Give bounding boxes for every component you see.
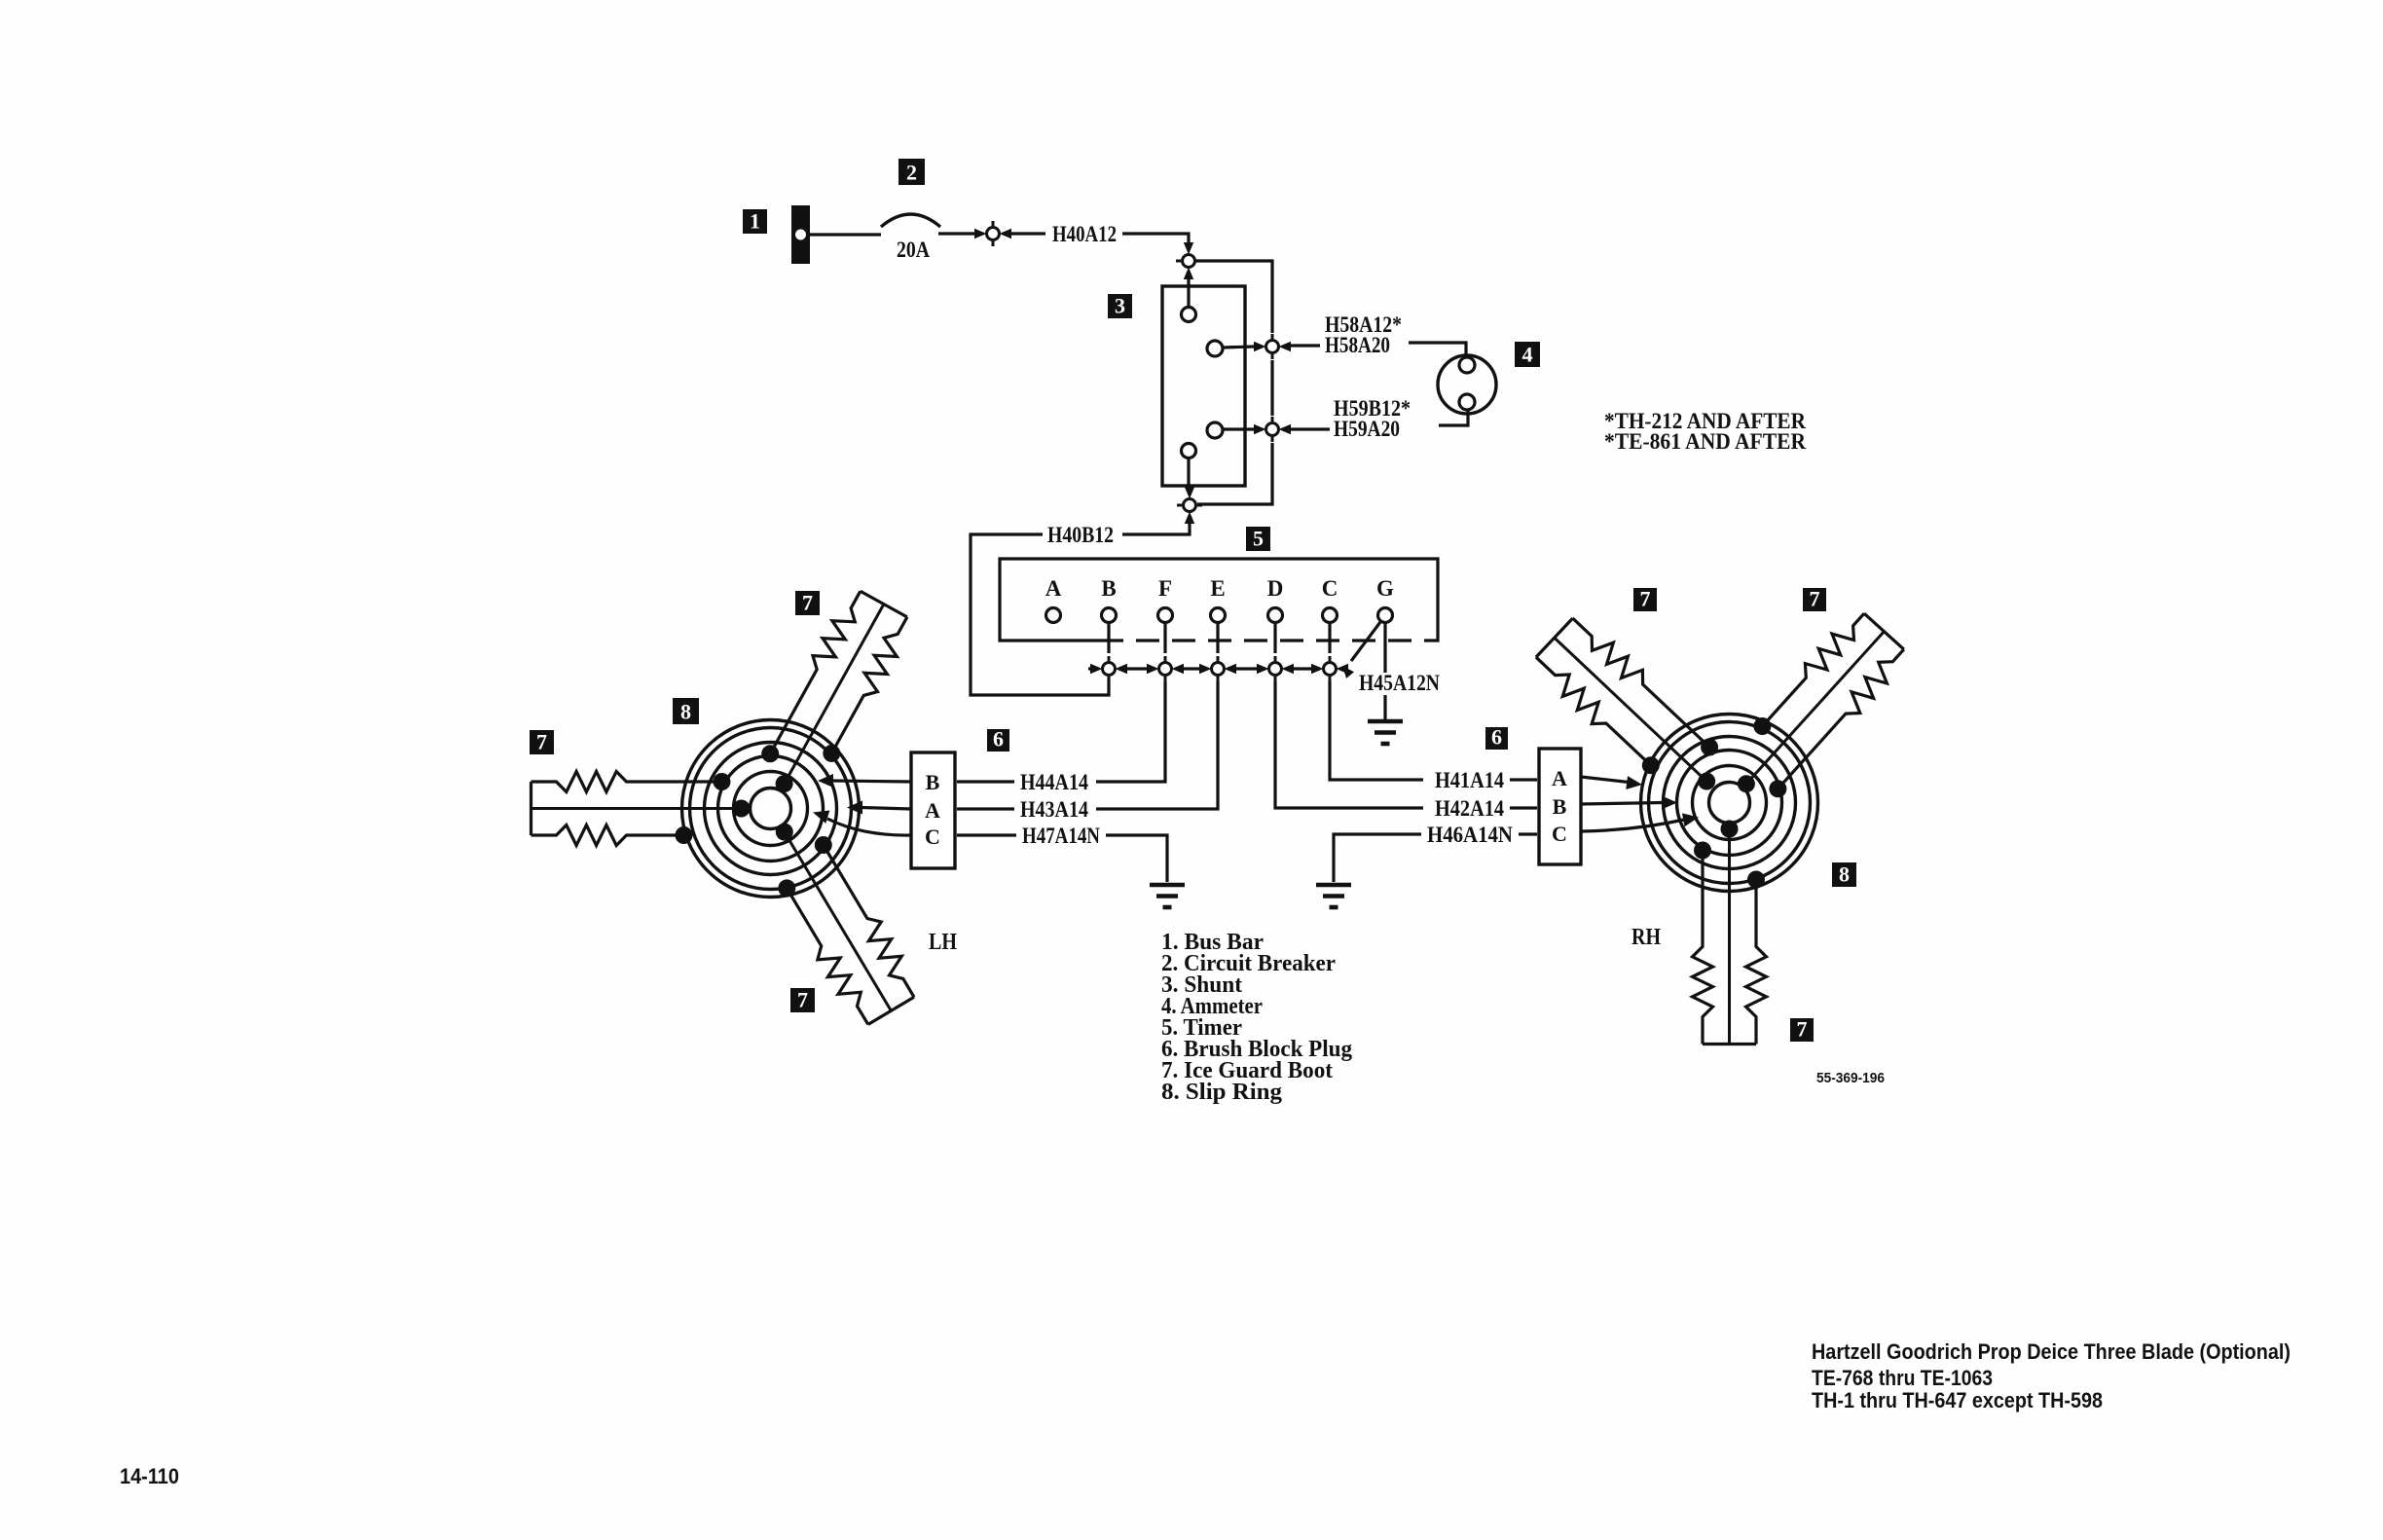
- bus segment F-E: [1184, 667, 1199, 670]
- item label 6 (left): [987, 727, 1009, 752]
- ice guard boot RH upper-right blade (item 7): [1738, 613, 1904, 797]
- wire H41A14 to right brush block A: [1510, 778, 1537, 781]
- timer (item 5) outline: [1000, 559, 1438, 641]
- timer terminal letter E: [1210, 576, 1225, 601]
- bus bar (item 1): [791, 205, 810, 264]
- svg-text:F: F: [1158, 576, 1172, 601]
- svg-text:H42A14: H42A14: [1435, 796, 1504, 821]
- svg-text:H58A20: H58A20: [1325, 333, 1390, 357]
- text RH: [1631, 925, 1661, 950]
- svg-text:TH-1 thru TH-647 except TH-598: TH-1 thru TH-647 except TH-598: [1812, 1388, 2103, 1412]
- svg-text:H47A14N: H47A14N: [1022, 824, 1100, 848]
- wire timer terminal D down: [1273, 623, 1276, 653]
- wire right-branch vertical below H59 splice: [1197, 443, 1272, 504]
- legend line 1. Bus Bar: [1161, 930, 1264, 955]
- wire label H44A14: [1020, 770, 1088, 794]
- wire timer F to H44A14 row: [1096, 681, 1165, 782]
- wire branch right from junction: [1195, 261, 1272, 333]
- wire H58A20 to ammeter: [1409, 343, 1466, 354]
- timer terminal letter A: [1045, 576, 1062, 601]
- wire splice to shunt H59 terminal: [1223, 427, 1254, 430]
- brush block LH pin letter B: [926, 770, 940, 794]
- wire brush C to LH slip ring: [813, 811, 911, 836]
- wire brush A to LH slip ring: [847, 801, 911, 815]
- wire H40A12 to junction: [1122, 234, 1189, 248]
- wire H42A14 to right brush block B: [1510, 806, 1537, 809]
- svg-text:H46A14N: H46A14N: [1427, 823, 1513, 847]
- bus segment D-C: [1294, 667, 1311, 670]
- splice connector bus D: [1257, 656, 1294, 681]
- wire shunt H58 terminal to splice: [1223, 347, 1254, 348]
- svg-text:H40B12: H40B12: [1047, 523, 1114, 547]
- svg-text:C: C: [925, 825, 940, 849]
- wire timer G to ground (H45A12N): [1383, 623, 1386, 719]
- svg-text:RH: RH: [1631, 925, 1661, 950]
- timer terminal letter F: [1158, 576, 1172, 601]
- svg-text:3: 3: [1115, 294, 1125, 318]
- svg-text:4: 4: [1522, 343, 1533, 367]
- item label 6 (right): [1485, 725, 1508, 751]
- svg-text:A: A: [925, 798, 940, 823]
- wire timer terminal B down: [1107, 623, 1110, 653]
- wire H46A14N to ground: [1334, 834, 1421, 882]
- svg-text:2: 2: [906, 161, 917, 185]
- wire junction to shunt top terminal: [1187, 274, 1190, 308]
- junction connector below shunt: [1177, 487, 1202, 524]
- brush block RH pin letter B: [1553, 794, 1567, 819]
- note *TE-861 AND AFTER: [1604, 429, 1806, 454]
- timer terminal A pin: [1046, 608, 1061, 623]
- svg-text:6: 6: [1491, 725, 1502, 750]
- caption line 1: [1812, 1339, 2291, 1364]
- text LH: [929, 930, 957, 955]
- wire H59 label to splice: [1291, 427, 1330, 430]
- figure number 55-369-196: [1816, 1070, 1885, 1086]
- svg-text:D: D: [1267, 576, 1284, 601]
- legend line 3. Shunt: [1161, 972, 1242, 998]
- svg-text:7: 7: [797, 988, 808, 1012]
- wire H44A14 to left brush block B: [957, 780, 1014, 783]
- svg-text:6: 6: [993, 727, 1004, 752]
- shunt terminal H58: [1207, 341, 1223, 356]
- legend line 5. Timer: [1161, 1015, 1242, 1041]
- brush block plug LH (item 6): [911, 752, 955, 868]
- item label 7 (RH upper-right blade): [1803, 587, 1826, 612]
- item label 8 (left): [673, 698, 699, 724]
- circuit breaker 20A (item 2): [881, 214, 940, 227]
- svg-text:55-369-196: 55-369-196: [1816, 1070, 1885, 1086]
- slip ring RH (item 8): [1641, 715, 1818, 892]
- item label 7 (RH lower blade): [1790, 1017, 1814, 1043]
- item label 2: [898, 159, 925, 185]
- legend line 8. Slip Ring: [1161, 1080, 1282, 1105]
- timer terminal G pin: [1378, 608, 1393, 623]
- wire ammeter to H59A20 label: [1439, 410, 1468, 425]
- wire shunt bottom terminal to junction: [1187, 458, 1190, 492]
- shunt (item 3) outline: [1162, 286, 1245, 486]
- svg-text:LH: LH: [929, 930, 957, 955]
- timer terminal F pin: [1158, 608, 1173, 623]
- svg-text:14-110: 14-110: [120, 1464, 179, 1488]
- ice guard boot LH left blade (item 7): [532, 772, 751, 846]
- wire right brush block C to H46A14N label: [1519, 832, 1537, 835]
- item label 7 (LH left blade): [530, 730, 554, 755]
- brush block LH pin letter A: [925, 798, 940, 823]
- bus segment E-D: [1236, 667, 1257, 670]
- wire label H46A14N: [1427, 823, 1513, 847]
- legend line 4. Ammeter: [1161, 994, 1263, 1019]
- wire splice to H58 label: [1291, 344, 1320, 347]
- brush block LH pin letter C: [925, 825, 940, 849]
- wire label H58A12*: [1325, 312, 1402, 337]
- wire timer C to H41A14 row: [1330, 681, 1423, 780]
- svg-text:7: 7: [536, 730, 547, 754]
- timer terminal C pin: [1323, 608, 1338, 623]
- wire brush A to RH slip ring: [1581, 776, 1642, 789]
- item label 3: [1108, 294, 1132, 319]
- svg-text:Hartzell Goodrich Prop Deice T: Hartzell Goodrich Prop Deice Three Blade…: [1812, 1339, 2291, 1364]
- timer terminal letter C: [1322, 576, 1338, 601]
- wire H40B12 loop to timer B splice: [971, 534, 1109, 695]
- wire label H47A14N: [1022, 824, 1100, 848]
- svg-text:E: E: [1210, 576, 1225, 601]
- timer terminal letter D: [1267, 576, 1284, 601]
- legend line 7. Ice Guard Boot: [1161, 1058, 1333, 1083]
- timer terminal E pin: [1211, 608, 1226, 623]
- wire timer terminal E down: [1216, 623, 1219, 653]
- item label 8 (right): [1832, 862, 1856, 888]
- timer terminal letter B: [1101, 576, 1116, 601]
- wire timer terminal F down: [1163, 623, 1166, 653]
- svg-text:TE-768 thru TE-1063: TE-768 thru TE-1063: [1812, 1366, 1993, 1390]
- note *TH-212 AND AFTER: [1604, 409, 1806, 433]
- ice guard boot LH upper blade (item 7): [761, 591, 907, 792]
- svg-text:1: 1: [750, 209, 760, 234]
- svg-text:A: A: [1045, 576, 1062, 601]
- wire left brush block C to H47A14N label: [957, 833, 1016, 836]
- timer terminal D pin: [1268, 608, 1283, 623]
- slip ring LH (item 8): [682, 720, 860, 898]
- splice connector bus E: [1199, 656, 1236, 681]
- shunt terminal top: [1182, 308, 1196, 322]
- wire splice to H40A12 label: [1011, 232, 1045, 235]
- svg-text:A: A: [1552, 766, 1567, 790]
- wire bus bar to circuit breaker: [810, 233, 881, 236]
- shunt terminal bottom: [1182, 444, 1196, 458]
- svg-text:B: B: [926, 770, 940, 794]
- ice guard boot RH upper-left blade (item 7): [1536, 618, 1718, 790]
- shunt terminal H59: [1207, 422, 1223, 438]
- ground symbol H47A14N: [1150, 885, 1185, 907]
- ice guard boot LH lower blade (item 7): [776, 824, 914, 1025]
- brush block plug RH (item 6): [1539, 749, 1581, 864]
- caption line 3: [1812, 1388, 2103, 1412]
- ground symbol H45A12N: [1368, 721, 1403, 744]
- item label 1 (bus bar): [743, 209, 767, 235]
- wire label H40B12: [1047, 523, 1114, 547]
- svg-text:8: 8: [1839, 862, 1850, 887]
- wire label H59B12*: [1334, 396, 1411, 421]
- page number 14-110: [120, 1464, 179, 1488]
- svg-text:*TE-861 AND AFTER: *TE-861 AND AFTER: [1604, 429, 1806, 454]
- wire junction to H40B12 corner: [1122, 518, 1190, 534]
- item label 5: [1246, 527, 1270, 552]
- ammeter (item 4): [1438, 355, 1496, 414]
- svg-text:G: G: [1376, 576, 1394, 601]
- svg-text:B: B: [1101, 576, 1116, 601]
- wire label H59A20: [1334, 417, 1400, 441]
- brush block RH pin letter A: [1552, 766, 1567, 790]
- splice connector on wire H40A12: [974, 221, 1011, 246]
- legend line 2. Circuit Breaker: [1161, 951, 1336, 976]
- svg-text:C: C: [1552, 822, 1567, 846]
- wire label H58A20: [1325, 333, 1390, 357]
- bus segment B-F: [1127, 667, 1147, 670]
- wire circuit breaker to splice: [938, 232, 974, 235]
- ground symbol H46A14N: [1316, 885, 1351, 907]
- wire timer D to H42A14 row: [1275, 681, 1423, 808]
- brush block RH pin letter C: [1552, 822, 1567, 846]
- svg-text:H43A14: H43A14: [1020, 797, 1088, 822]
- wire timer E to H43A14 row: [1096, 681, 1218, 809]
- wire label H40A12: [1052, 222, 1117, 246]
- wire brush C to RH slip ring: [1581, 813, 1699, 831]
- wire brush B to RH slip ring: [1581, 796, 1677, 810]
- timer terminal B pin: [1102, 608, 1117, 623]
- wire label H42A14: [1435, 796, 1504, 821]
- wire label H41A14: [1435, 768, 1504, 792]
- svg-text:H59A20: H59A20: [1334, 417, 1400, 441]
- item label 4: [1515, 342, 1540, 367]
- wire label H45A12N: [1359, 671, 1440, 695]
- caption line 2: [1812, 1366, 1993, 1390]
- splice connector bus B: [1090, 656, 1127, 681]
- splice connector on wire H59: [1254, 417, 1291, 442]
- svg-text:B: B: [1553, 794, 1567, 819]
- svg-text:H44A14: H44A14: [1020, 770, 1088, 794]
- value label 20A: [897, 238, 930, 262]
- svg-text:20A: 20A: [897, 238, 930, 262]
- svg-text:7: 7: [802, 591, 813, 615]
- wire right-branch vertical between H58 and H59 splices: [1270, 360, 1273, 416]
- wire brush B to LH slip ring: [818, 774, 911, 788]
- wire timer terminal C down: [1328, 623, 1331, 653]
- splice connector on wire H58: [1254, 334, 1291, 359]
- junction connector above shunt: [1176, 242, 1201, 279]
- splice connector bus C: [1311, 656, 1348, 681]
- legend line 6. Brush Block Plug: [1161, 1037, 1352, 1062]
- wire H47A14N to ground: [1106, 835, 1167, 882]
- wire label H43A14: [1020, 797, 1088, 822]
- wire H43A14 to left brush block A: [957, 807, 1014, 810]
- svg-text:7: 7: [1810, 587, 1820, 611]
- bus stub left of B splice: [1088, 667, 1096, 670]
- svg-text:C: C: [1322, 576, 1338, 601]
- svg-text:5: 5: [1253, 527, 1264, 551]
- item label 7 (LH lower blade): [790, 988, 815, 1013]
- timer terminal letter G: [1376, 576, 1394, 601]
- wire timer G diagonal to bus C splice: [1342, 622, 1380, 678]
- svg-text:8. Slip Ring: 8. Slip Ring: [1161, 1080, 1282, 1105]
- ice guard boot RH lower blade (item 7): [1693, 821, 1767, 1045]
- item label 7 (RH upper-left blade): [1633, 587, 1657, 612]
- item label 7 (LH upper blade): [795, 591, 820, 616]
- svg-text:H41A14: H41A14: [1435, 768, 1504, 792]
- svg-text:H40A12: H40A12: [1052, 222, 1117, 246]
- svg-text:H45A12N: H45A12N: [1359, 671, 1440, 695]
- svg-text:8: 8: [680, 700, 691, 724]
- svg-text:7: 7: [1640, 587, 1651, 611]
- splice connector bus F: [1147, 656, 1184, 681]
- svg-text:7: 7: [1797, 1017, 1808, 1042]
